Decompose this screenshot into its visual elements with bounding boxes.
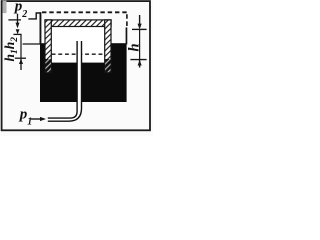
vessel lid phantom (top dashed line) <box>42 11 127 13</box>
tube inner wall <box>48 41 77 118</box>
right tick y=29.4 <box>132 28 147 30</box>
vessel left wall <box>40 12 42 44</box>
liquid level line inside bell (dashed) <box>52 53 105 55</box>
right dim shaft mid <box>139 29 141 59</box>
level tick left of vessel <box>23 43 40 45</box>
bell right wall <box>105 20 111 73</box>
p2 arrow (down) <box>17 14 19 27</box>
tick line y=34.4 <box>13 33 21 35</box>
bell top wall <box>45 20 111 27</box>
p1 arrow (right) <box>31 118 41 120</box>
bell left wall <box>45 20 51 73</box>
left lower arrow (up) <box>19 59 23 64</box>
bell left wall submerged part <box>45 59 51 72</box>
liquid (black mass) in vessel <box>40 43 127 102</box>
vessel right wall <box>126 27 128 44</box>
tube interior (white channel) <box>48 41 82 121</box>
left dim shaft mid <box>20 34 22 58</box>
lid surface line at p2 <box>8 19 21 21</box>
frame top-left smudge <box>3 1 7 14</box>
vessel right wall phantom (vertical dashes) <box>126 14 128 27</box>
bell interior (gas space, white) <box>51 26 105 62</box>
tube outer wall <box>48 41 82 121</box>
right dim top shaft + arrow (down) <box>139 15 141 27</box>
svg-text:h: h <box>127 43 143 51</box>
tick line y=58.2 <box>15 57 26 59</box>
bell right wall submerged part <box>105 59 111 72</box>
border frame <box>2 1 150 130</box>
right lower arrow (up) <box>138 60 142 66</box>
lid step line <box>28 13 41 19</box>
h2 dim bottom arrow (down) <box>16 29 20 34</box>
background paper <box>0 0 153 136</box>
right tick y=59.6 <box>130 59 146 61</box>
